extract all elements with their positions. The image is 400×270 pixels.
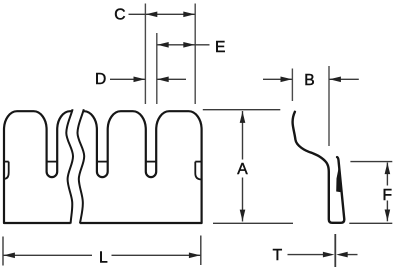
- break band (white): [66, 108, 84, 225]
- break wavy line left: [66, 109, 73, 223]
- svg-text:B: B: [304, 72, 314, 89]
- dimension T: [273, 234, 358, 267]
- dimension L: [3, 249, 201, 266]
- svg-text:F: F: [383, 187, 393, 204]
- dimension B: [263, 66, 359, 146]
- base top edge ticks in slots: [4, 161, 202, 163]
- dimension C: [114, 7, 195, 24]
- dimension F top extension line: [350, 161, 392, 163]
- extension line pitch-right (C/E right): [194, 4, 196, 105]
- svg-text:C: C: [114, 7, 125, 24]
- dimension F: [383, 163, 393, 222]
- comb front view outline: [4, 111, 202, 223]
- dimension A top extension line: [203, 109, 280, 111]
- dimension A: [237, 111, 248, 222]
- svg-text:L: L: [99, 249, 108, 266]
- extension line slot3-right (E/D right): [156, 33, 158, 104]
- dimension D: [95, 71, 186, 88]
- svg-text:D: D: [95, 71, 106, 88]
- left end half-slot hook: [4, 162, 9, 179]
- break wavy line right: [77, 109, 84, 223]
- dimension L extension lines: [2, 237, 4, 266]
- right end half-slot hook: [195, 162, 201, 180]
- svg-text:T: T: [273, 247, 283, 264]
- dimension A bottom extension line: [213, 222, 293, 224]
- side view profile: [293, 112, 345, 223]
- svg-text:A: A: [237, 161, 248, 178]
- side view tip wedge: [336, 166, 342, 192]
- extension line slot3-left (C/D left): [145, 4, 195, 105]
- dimension F bottom extension line: [349, 222, 392, 224]
- dimension E: [157, 39, 226, 56]
- svg-text:E: E: [215, 39, 225, 56]
